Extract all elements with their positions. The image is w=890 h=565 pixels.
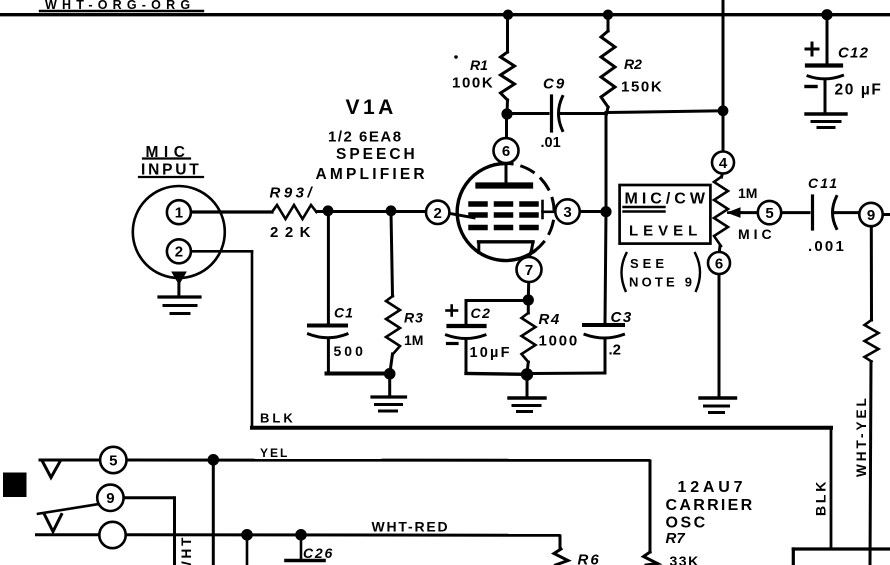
svg-text:C2: C2 (471, 305, 492, 321)
svg-text:C1: C1 (334, 305, 354, 321)
svg-text:2: 2 (175, 244, 183, 261)
svg-text:C11: C11 (808, 175, 839, 191)
svg-text:R93/: R93/ (270, 185, 316, 202)
svg-text:WHT-YEL: WHT-YEL (854, 395, 869, 477)
svg-text:2: 2 (434, 205, 442, 222)
svg-text:WHT-RED: WHT-RED (372, 519, 450, 535)
svg-text:C9: C9 (543, 76, 566, 93)
svg-text:WHT-ORG-ORG: WHT-ORG-ORG (45, 0, 195, 12)
svg-text:R4: R4 (539, 311, 561, 328)
svg-text:BLK: BLK (260, 411, 296, 426)
svg-text:YEL: YEL (260, 446, 289, 460)
svg-text:100K: 100K (452, 75, 494, 92)
svg-text:WHT: WHT (179, 535, 194, 565)
svg-text:R3: R3 (404, 310, 424, 326)
svg-text:6: 6 (715, 255, 723, 272)
svg-text:1/2 6EA8: 1/2 6EA8 (328, 129, 403, 146)
svg-text:500: 500 (334, 343, 366, 359)
svg-text:LEVEL: LEVEL (629, 223, 702, 240)
svg-text:BLK: BLK (813, 479, 829, 516)
svg-text:5: 5 (109, 452, 117, 469)
svg-text:INPUT: INPUT (141, 162, 202, 179)
svg-text:4: 4 (719, 155, 728, 172)
svg-text:SPEECH: SPEECH (336, 146, 418, 163)
svg-text:12AU7: 12AU7 (678, 479, 747, 496)
svg-text:.2: .2 (609, 342, 622, 359)
svg-text:C26: C26 (303, 545, 334, 561)
svg-text:CARRIER: CARRIER (666, 497, 755, 514)
svg-text:7: 7 (525, 262, 533, 279)
svg-text:20 µF: 20 µF (835, 82, 883, 99)
svg-text:.01: .01 (541, 135, 561, 151)
svg-text:.001: .001 (808, 238, 846, 255)
svg-text:9: 9 (867, 207, 875, 224)
svg-text:AMPLIFIER: AMPLIFIER (316, 166, 428, 183)
svg-text:3: 3 (563, 204, 571, 221)
svg-text:C12: C12 (838, 45, 869, 62)
svg-text:SEE: SEE (630, 256, 668, 271)
svg-text:22K: 22K (270, 224, 317, 241)
svg-text:150K: 150K (621, 79, 663, 96)
svg-text:1: 1 (175, 205, 183, 222)
svg-text:MIC/CW: MIC/CW (625, 191, 709, 208)
svg-text:33K: 33K (670, 553, 700, 565)
svg-text:R2: R2 (624, 56, 642, 72)
svg-text:1M: 1M (738, 185, 757, 201)
svg-text:C3: C3 (611, 309, 633, 326)
svg-text:OSC: OSC (666, 515, 708, 532)
svg-text:1000: 1000 (539, 333, 580, 350)
svg-text:MIC: MIC (738, 226, 776, 242)
svg-text:NOTE 9: NOTE 9 (629, 274, 695, 289)
svg-text:10µF: 10µF (470, 345, 512, 361)
svg-text:9: 9 (106, 490, 114, 507)
svg-text:R1: R1 (470, 57, 488, 73)
svg-text:MIC: MIC (146, 144, 191, 161)
svg-text:V1A: V1A (346, 96, 397, 119)
svg-text:R6: R6 (578, 552, 601, 565)
svg-text:5: 5 (765, 205, 773, 222)
svg-text:R7: R7 (666, 530, 686, 547)
svg-text:6: 6 (502, 143, 510, 160)
svg-text:1M: 1M (404, 332, 423, 348)
